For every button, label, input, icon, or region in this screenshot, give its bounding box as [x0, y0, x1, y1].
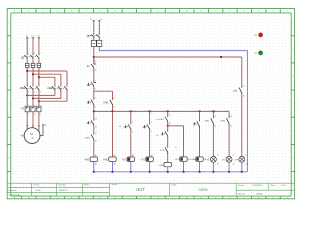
svg-text:J: J	[143, 197, 144, 199]
wire F2 to S1	[93, 69, 95, 82]
node feed L2	[32, 73, 34, 75]
svg-text:Titulo: Titulo	[171, 183, 177, 186]
svg-text:3: 3	[132, 122, 133, 124]
svg-text:2: 2	[95, 89, 96, 91]
svg-text:Num.: Num.	[270, 185, 275, 187]
svg-text:3: 3	[34, 53, 35, 55]
node bus H1	[212, 110, 214, 112]
svg-text:96: 96	[95, 70, 97, 72]
wire KM2 return 2	[60, 91, 62, 99]
contact KA3 NO (pushbutton style)	[93, 119, 95, 120]
svg-text:UUT: UUT	[136, 187, 145, 192]
contact S5 NO	[167, 130, 169, 131]
svg-text:-KT1: -KT1	[122, 159, 128, 161]
wire KM1 outputs down to relay F2	[26, 91, 28, 107]
svg-text:Fecha: Fecha	[238, 185, 245, 187]
wire S1 to split	[93, 87, 95, 91]
svg-text:22: 22	[95, 141, 97, 143]
node L3 terminal	[38, 37, 41, 39]
coil KT1 (timer)	[127, 157, 134, 161]
svg-text:x1: x1	[233, 155, 235, 157]
wire feed L3 to KM2 pole1	[39, 76, 55, 78]
wire contact to lamp H2	[228, 125, 230, 156]
svg-text:13: 13	[214, 116, 216, 118]
node neutral H3	[241, 171, 243, 173]
node bus KT1	[130, 110, 132, 112]
wire S2 to bus	[93, 106, 95, 112]
svg-text:1 de 1: 1 de 1	[281, 185, 288, 187]
coil KA2 (timer)	[196, 157, 203, 161]
coil KM2	[109, 157, 116, 161]
wire S4 to KT2 coil	[149, 130, 151, 157]
wire contact to lamp H1	[212, 125, 214, 156]
svg-text:-KM2: -KM2	[85, 137, 91, 139]
fuse F1 (3x)	[25, 63, 40, 67]
wire split drop S2	[93, 91, 95, 99]
svg-text:U1: U1	[26, 126, 28, 128]
pushbutton S3 NO	[130, 123, 132, 124]
wire phase down from Q2	[93, 46, 95, 63]
wire KA1 coil to neutral bus	[167, 167, 169, 172]
svg-text:1/2: 1/2	[119, 126, 121, 128]
wire drop KM1 aux	[112, 91, 114, 99]
lamp legend H01 (red)	[259, 33, 263, 37]
pushbutton S2 NO (start)	[93, 99, 95, 100]
node control L terminal	[93, 20, 95, 22]
svg-text:4: 4	[132, 131, 133, 133]
wire S5 to KT4 contact	[167, 137, 169, 146]
svg-text:M: M	[186, 197, 188, 199]
svg-text:J: J	[143, 11, 144, 13]
contact KT4 NO	[167, 146, 169, 147]
svg-text:-KT3: -KT3	[175, 159, 181, 161]
svg-text:13: 13	[169, 115, 171, 117]
node neutral H1	[212, 171, 214, 173]
wire bus to KA2 contact	[199, 111, 201, 120]
wire lamp H1 to neutral bus	[212, 162, 214, 171]
svg-text:4: 4	[95, 106, 96, 108]
node neutral KM2	[111, 171, 113, 173]
node phase tap	[93, 56, 95, 58]
svg-text:17/04/2014: 17/04/2014	[252, 185, 263, 187]
wire neutral bus (blue)	[94, 171, 248, 173]
node neutral H2	[228, 171, 230, 173]
wire lamp H2 to neutral bus	[228, 162, 230, 171]
wire split to KM1 aux branch	[94, 90, 113, 92]
node feed L3	[38, 76, 40, 78]
coil KM1	[90, 157, 97, 161]
svg-text:-KM1: -KM1	[19, 88, 25, 90]
breaker Q2 thermal elements	[91, 40, 102, 46]
wire KT1 coil to neutral bus	[130, 161, 132, 171]
contact F2 NC (thermal trip)	[93, 57, 95, 63]
wire lamp H3 to neutral bus	[241, 162, 243, 171]
wire F2 to motor	[26, 112, 28, 133]
svg-text:4: 4	[34, 92, 35, 94]
svg-text:x1: x1	[245, 155, 247, 157]
node neutral KA1	[167, 171, 169, 173]
svg-text:4: 4	[34, 114, 35, 116]
svg-text:-KA2: -KA2	[191, 158, 197, 161]
contactor KM2 main contacts	[47, 85, 67, 91]
svg-text:M: M	[186, 11, 188, 13]
node bus KT2	[148, 110, 150, 112]
wire feed L1 to KM2 pole3	[27, 70, 67, 72]
contact KA1 NO	[167, 116, 169, 117]
wire KM2 return 3	[66, 91, 68, 102]
wire S6 to KA2 coil	[199, 128, 201, 157]
wire Q1 to fuses	[26, 59, 28, 64]
node neutral KT3	[182, 171, 184, 173]
svg-text:13: 13	[230, 116, 232, 118]
wire KA2 coil to neutral bus	[199, 161, 201, 172]
node bus KM2	[111, 110, 113, 112]
svg-text:-KM2: -KM2	[103, 159, 109, 161]
wire lamp H3 feeder drop	[241, 57, 243, 87]
svg-text:21: 21	[95, 132, 97, 134]
svg-text:Fecha: Fecha	[34, 185, 41, 187]
wire control bus (phase)	[94, 110, 229, 112]
svg-text:13: 13	[114, 98, 116, 100]
wire neutral blue rail	[99, 46, 247, 171]
svg-text:-KM2: -KM2	[220, 121, 226, 123]
contact KM2 interlock NC	[93, 133, 95, 134]
wire Q2 poles to thermal boxes	[93, 38, 95, 40]
node feed L1	[26, 70, 28, 72]
node return L1	[26, 94, 28, 96]
svg-text:14: 14	[214, 125, 216, 127]
svg-text:CINTA: CINTA	[198, 188, 208, 192]
wire motor PE	[40, 135, 43, 137]
wire bus to KM2 coil	[112, 111, 114, 157]
svg-text:4/5: 4/5	[156, 135, 158, 137]
node neutral KM1	[93, 171, 95, 173]
wire bus to S4	[149, 111, 151, 123]
wire contact to lamp H3	[241, 94, 243, 156]
wire KM2 coil to neutral bus	[112, 161, 114, 171]
svg-text:Dibujado: Dibujado	[8, 190, 17, 192]
wire KM1 aux to bus	[112, 106, 114, 112]
svg-text:14: 14	[230, 125, 232, 127]
svg-text:-KM2: -KM2	[47, 88, 53, 90]
lamp legend H02 (green)	[259, 51, 263, 55]
svg-text:17/04: 17/04	[36, 190, 42, 192]
wire L1 drop	[26, 38, 28, 54]
wire KM2 return 1	[54, 91, 56, 96]
lamp H3	[239, 156, 245, 162]
node feeder joint	[220, 56, 222, 58]
wire feed L2 to KM2 pole2	[33, 73, 61, 75]
svg-text:95: 95	[95, 61, 97, 63]
svg-text:3: 3	[95, 98, 96, 100]
node neutral KT2	[148, 171, 150, 173]
svg-text:-KM1: -KM1	[84, 159, 90, 161]
svg-text:13: 13	[243, 86, 245, 88]
node return L3	[38, 100, 40, 102]
lamp H2	[226, 156, 232, 162]
node L1 terminal	[26, 37, 29, 39]
svg-text:4: 4	[151, 131, 152, 133]
wire L3 drop	[38, 38, 40, 54]
svg-text:-KA1: -KA1	[159, 118, 165, 121]
wire S3 to KT1 coil	[130, 130, 132, 157]
svg-text:-KA1: -KA1	[159, 164, 165, 167]
title block	[7, 183, 294, 196]
svg-text:5: 5	[40, 53, 41, 55]
svg-text:57: 57	[175, 147, 177, 149]
coil KA1	[164, 162, 171, 166]
contact S6 NO	[199, 120, 201, 121]
wire KT4 to KA1 coil	[167, 153, 169, 162]
svg-text:Nombre: Nombre	[59, 184, 67, 187]
svg-text:RBURCY: RBURCY	[59, 190, 68, 192]
svg-text:1: 1	[28, 53, 29, 55]
wire split down	[167, 123, 169, 131]
svg-text:CINTA: CINTA	[256, 193, 263, 196]
node neutral KA2	[198, 171, 200, 173]
node KA1 split	[167, 125, 169, 127]
svg-text:-KM1: -KM1	[103, 102, 109, 104]
breaker Q2 (2-pole)	[86, 33, 100, 38]
svg-text:2: 2	[28, 92, 29, 94]
motor M1 (3~)	[20, 128, 40, 144]
thermal relay F2	[21, 106, 41, 116]
svg-text:1: 1	[95, 80, 96, 82]
wire L2 drop	[32, 38, 34, 54]
svg-text:14: 14	[95, 127, 97, 129]
pushbutton S4 NO	[149, 123, 151, 124]
wire bus end down	[228, 111, 230, 117]
contactor KM1 main contacts	[19, 85, 41, 94]
svg-text:Firma: Firma	[84, 184, 90, 187]
wire KA1 split to KT3 coil	[183, 126, 185, 157]
node neutral KT1	[130, 171, 132, 173]
svg-text:-KA1: -KA1	[233, 90, 239, 93]
node control N terminal	[98, 20, 100, 22]
wire KT2 coil to neutral bus	[149, 161, 151, 171]
contact KM2 aux NO (lamp H2)	[228, 117, 230, 118]
svg-text:13: 13	[95, 118, 97, 120]
svg-text:-KT2: -KT2	[141, 159, 147, 161]
coil KT2 (timer)	[146, 157, 153, 161]
breaker Q1 (3-pole)	[20, 53, 40, 60]
wire KT3 coil to neutral bus	[183, 161, 185, 172]
wire phase feeder to right	[94, 56, 242, 58]
svg-text:-KT4: -KT4	[159, 150, 165, 152]
svg-text:3: 3	[151, 122, 152, 124]
wire bus to KM1 lamp contact	[212, 111, 214, 117]
svg-text:6: 6	[40, 92, 41, 94]
wire bus to KA3 contact	[93, 111, 95, 119]
svg-text:14: 14	[169, 123, 171, 125]
svg-text:Archivo: Archivo	[238, 193, 246, 196]
node bus KA2	[198, 110, 200, 112]
svg-text:x2: x2	[233, 163, 235, 165]
svg-text:x2: x2	[245, 163, 247, 165]
pushbutton S1 NC (stop)	[93, 81, 95, 82]
wire to KM2 interlock contact	[93, 126, 95, 134]
node bus KM1	[93, 110, 95, 112]
contact KM1 aux NO (latch)	[112, 99, 114, 100]
wire KM1 coil to neutral bus	[93, 161, 95, 171]
wire terminals to Q2	[93, 21, 95, 34]
wire to KM1 coil	[93, 141, 95, 158]
wire bus to KA1 contact	[167, 111, 169, 115]
wire bus to S3	[130, 111, 132, 123]
svg-text:14: 14	[243, 95, 245, 97]
svg-text:Comprobado: Comprobado	[8, 193, 21, 196]
node L2 terminal	[32, 37, 35, 39]
svg-text:-KM1: -KM1	[204, 121, 210, 123]
lamp H1	[210, 156, 216, 162]
svg-text:x1: x1	[217, 155, 219, 157]
node bus KA1	[167, 110, 169, 112]
contact KM1 aux NO (lamp H1)	[212, 117, 214, 118]
svg-text:1L: 1L	[90, 19, 92, 21]
svg-text:14: 14	[114, 106, 116, 108]
svg-text:Gecal: Gecal	[112, 184, 118, 186]
wire fuses to KM1 contacts	[26, 67, 28, 85]
node return L2	[32, 97, 34, 99]
svg-text:W1: W1	[38, 126, 41, 128]
wire split to KT3 branch	[168, 125, 184, 127]
contact KA1 aux (lamp H3 feed)	[241, 86, 243, 87]
svg-text:x2: x2	[217, 163, 219, 165]
coil KT3 (timer)	[180, 157, 187, 161]
